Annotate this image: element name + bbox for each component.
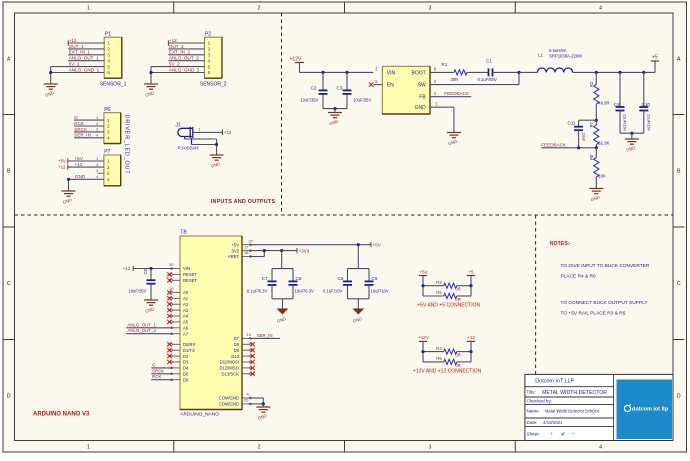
C5/C6 ground <box>348 298 370 300</box>
svg-text:D5: D5 <box>183 372 189 377</box>
svg-text:+5V: +5V <box>58 159 66 164</box>
svg-text:ARDUINO_NANO: ARDUINO_NANO <box>180 412 219 418</box>
ground under C4/C10 <box>625 138 639 140</box>
svg-text:30: 30 <box>169 262 174 267</box>
svg-text:D11/MOSI: D11/MOSI <box>220 360 239 365</box>
svg-text:4: 4 <box>96 175 98 179</box>
svg-text:1: 1 <box>107 118 110 123</box>
svg-text:+12: +12 <box>69 38 77 43</box>
svg-text:+5V: +5V <box>231 242 239 247</box>
svg-text:D6: D6 <box>183 377 189 382</box>
ground under COM/GND <box>256 406 270 408</box>
svg-text:Date:: Date: <box>527 420 538 425</box>
net SER_IN on D7 <box>250 337 281 339</box>
svg-text:C: C <box>677 281 681 287</box>
svg-text:10uF/35V: 10uF/35V <box>128 289 146 294</box>
svg-text:R5: R5 <box>436 290 442 295</box>
capacitor C10 22uF/16V <box>642 71 645 74</box>
svg-text:C4: C4 <box>614 102 620 107</box>
svg-text:0R: 0R <box>455 363 460 368</box>
capacitor C4 22uF/16V <box>618 71 621 74</box>
C4/C10 ground rail <box>620 132 644 134</box>
svg-text:D0/RX: D0/RX <box>183 342 196 347</box>
svg-text:P7: P7 <box>104 149 110 155</box>
svg-text:OUT_1: OUT_1 <box>69 44 84 49</box>
svg-text:4: 4 <box>599 6 602 12</box>
svg-text:3: 3 <box>428 445 431 451</box>
svg-text:0.1uF/50V: 0.1uF/50V <box>478 77 498 82</box>
ground under C9 <box>144 299 158 301</box>
svg-text:G: G <box>74 115 78 120</box>
svg-text:4: 4 <box>208 58 211 63</box>
C7/C8 ground <box>272 298 293 300</box>
section divider dashed vertical (inputs/outputs) <box>281 13 283 215</box>
capacitor C11 DNF <box>579 119 597 121</box>
svg-text:+12: +12 <box>58 165 66 170</box>
capacitor C1 0.1uF/50V <box>467 71 489 73</box>
ground under J1 <box>210 154 224 156</box>
svg-text:D2: D2 <box>183 354 189 359</box>
svg-text:VIN: VIN <box>387 70 396 76</box>
svg-text:RESET: RESET <box>183 278 197 283</box>
svg-text:3: 3 <box>107 130 110 135</box>
svg-text:ANLG_OUT_2: ANLG_OUT_2 <box>127 328 156 333</box>
svg-text:22uF/16V: 22uF/16V <box>623 114 628 132</box>
svg-text:0R: 0R <box>455 353 460 358</box>
svg-text:A: A <box>677 57 681 63</box>
svg-text:METAL WIDTH DETECTOR: METAL WIDTH DETECTOR <box>542 390 607 396</box>
svg-text:C11: C11 <box>568 120 577 125</box>
wire +12V to VIN <box>300 71 374 73</box>
connector P7 <box>104 155 121 186</box>
svg-text:COM/GND: COM/GND <box>219 396 239 401</box>
svg-text:2: 2 <box>107 124 110 129</box>
no-connect X marks <box>167 272 171 276</box>
svg-text:+3V3: +3V3 <box>299 248 310 253</box>
svg-text:FB: FB <box>419 95 426 101</box>
svg-text:G: G <box>152 362 156 367</box>
svg-text:10uF/10V: 10uF/10V <box>371 289 389 294</box>
svg-text:52.3K: 52.3K <box>598 141 609 146</box>
svg-text:P1: P1 <box>105 32 111 38</box>
svg-text:30R: 30R <box>451 77 459 82</box>
capacitor C2 10uF/35V <box>321 71 324 74</box>
svg-text:SENSOR_1: SENSOR_1 <box>100 81 127 87</box>
svg-text:R1: R1 <box>442 62 448 67</box>
svg-text:1: 1 <box>87 445 90 451</box>
svg-text:3: 3 <box>428 6 431 12</box>
svg-text:FEEDBACK: FEEDBACK <box>444 91 470 96</box>
svg-text:C7: C7 <box>262 276 268 281</box>
svg-text:C3: C3 <box>337 85 343 90</box>
svg-text:R6: R6 <box>436 356 442 361</box>
ground under R8 <box>589 188 603 190</box>
capacitor C6 10uF/10V <box>368 269 370 282</box>
svg-text:+12: +12 <box>169 38 177 43</box>
wires <box>422 276 424 297</box>
svg-text:0R: 0R <box>455 297 460 302</box>
resistor R2 49.9R <box>595 71 598 74</box>
svg-text:3: 3 <box>96 128 98 132</box>
svg-text:17: 17 <box>244 244 249 249</box>
svg-text:2: 2 <box>96 163 98 167</box>
svg-text:L1: L1 <box>538 53 544 58</box>
svg-text:ANLG_GND_2: ANLG_GND_2 <box>169 67 200 72</box>
svg-text:1: 1 <box>87 6 90 12</box>
svg-text:ARDUINO NANO V3: ARDUINO NANO V3 <box>33 412 90 418</box>
svg-text:10uF/35V: 10uF/35V <box>300 97 318 102</box>
title block <box>525 374 673 440</box>
svg-text:3V3: 3V3 <box>232 248 240 253</box>
svg-text:P6: P6 <box>104 107 110 113</box>
svg-text:Checked by:: Checked by: <box>527 399 553 404</box>
net SRCK <box>151 373 172 375</box>
wire L1 to +5 output <box>573 71 655 73</box>
svg-text:4: 4 <box>96 134 98 138</box>
svg-text:5V_1: 5V_1 <box>69 62 80 67</box>
svg-text:3: 3 <box>208 53 211 58</box>
svg-text:ANLG_OUT_1: ANLG_OUT_1 <box>127 322 156 327</box>
svg-text:D8: D8 <box>234 342 240 347</box>
svg-text:+5V: +5V <box>373 242 382 247</box>
border zone ticks <box>173 2 175 13</box>
svg-text:AREF: AREF <box>228 254 240 259</box>
svg-text:18: 18 <box>244 250 249 255</box>
svg-text:FEEDBACK: FEEDBACK <box>541 142 567 147</box>
svg-text:2: 2 <box>107 47 110 52</box>
svg-text:10K: 10K <box>598 173 606 178</box>
svg-text:SENSOR_2: SENSOR_2 <box>200 81 227 87</box>
svg-text:1: 1 <box>96 116 98 120</box>
svg-text:A2: A2 <box>183 302 189 307</box>
svg-text:D: D <box>7 394 11 400</box>
resistor R7 52.3K <box>594 125 599 145</box>
svg-text:5: 5 <box>208 64 211 69</box>
FB FEEDBACK net <box>430 96 471 98</box>
svg-text:TO GIVE INPUT TO BUCK CONVERTE: TO GIVE INPUT TO BUCK CONVERTER <box>561 263 650 269</box>
svg-text:5V_2: 5V_2 <box>169 62 180 67</box>
svg-text:C6: C6 <box>372 276 378 281</box>
svg-text:Name: Name <box>527 409 540 414</box>
svg-text:PJ-002AH: PJ-002AH <box>178 146 199 151</box>
svg-text:D9: D9 <box>234 348 240 353</box>
svg-text:EN: EN <box>387 83 394 89</box>
svg-text:P2: P2 <box>205 32 211 38</box>
ground under P2 <box>144 83 158 85</box>
svg-text:EXT_IN_2: EXT_IN_2 <box>169 50 191 55</box>
svg-text:INPUTS AND OUTPUTS: INPUTS AND OUTPUTS <box>211 199 276 205</box>
svg-text:10: 10 <box>247 332 252 337</box>
svg-text:Metal Width Detector.SchDoc: Metal Width Detector.SchDoc <box>545 409 600 414</box>
svg-text:A7: A7 <box>183 331 189 336</box>
svg-text:+12: +12 <box>123 266 131 271</box>
buck regulator U1 <box>382 66 430 114</box>
svg-text:D4: D4 <box>183 366 189 371</box>
svg-text:R3: R3 <box>436 280 442 285</box>
svg-text:D13/SCK: D13/SCK <box>222 372 240 377</box>
svg-text:C: C <box>7 281 11 287</box>
arduino pin stubs <box>173 268 181 270</box>
svg-text:RCK: RCK <box>74 121 85 126</box>
svg-text:D7: D7 <box>234 336 240 341</box>
EN pin no-connect <box>373 84 382 86</box>
connector P1 (SENSOR_1) <box>104 37 122 78</box>
svg-text:A5: A5 <box>183 320 189 325</box>
arduino module TB (ARDUINO_NANO) <box>180 236 242 410</box>
svg-text:+12V: +12V <box>290 57 302 63</box>
svg-text:RESET: RESET <box>183 272 197 277</box>
svg-text:C1: C1 <box>486 58 492 63</box>
svg-text:+5V: +5V <box>75 156 84 161</box>
svg-text:+5V AND +5 CONNECTION: +5V AND +5 CONNECTION <box>417 302 480 308</box>
ground under C2/C3 <box>328 112 342 114</box>
svg-text:2: 2 <box>208 47 211 52</box>
svg-text:D12/MISO: D12/MISO <box>219 366 239 371</box>
svg-text:A: A <box>7 57 11 63</box>
ground under U1 <box>447 132 461 134</box>
svg-text:3: 3 <box>96 169 98 173</box>
svg-text:6: 6 <box>107 70 110 75</box>
svg-text:EXT_IN_1: EXT_IN_1 <box>69 50 91 55</box>
svg-text:D10: D10 <box>231 354 239 359</box>
svg-text:*: * <box>572 431 574 436</box>
svg-text:VIN: VIN <box>183 266 190 271</box>
resistor R4 0R <box>444 349 457 354</box>
svg-text:10uF/35V: 10uF/35V <box>353 97 371 102</box>
net RCK <box>151 379 172 381</box>
svg-text:0.1uF/10V: 0.1uF/10V <box>323 289 343 294</box>
svg-text:SER_IN: SER_IN <box>74 133 91 138</box>
svg-text:+12V: +12V <box>418 335 430 340</box>
svg-text:ANLG_OUT_1: ANLG_OUT_1 <box>69 56 99 61</box>
svg-text:SRCK: SRCK <box>152 368 164 373</box>
dotcom iot llp logo <box>617 380 673 440</box>
svg-text:A4: A4 <box>183 314 189 319</box>
svg-text:1: 1 <box>208 41 211 46</box>
svg-text:R2: R2 <box>589 81 594 87</box>
svg-text:A1: A1 <box>183 296 189 301</box>
svg-text:R4: R4 <box>436 346 442 351</box>
svg-text:+12: +12 <box>75 162 83 167</box>
svg-text:SRP1038A-220M: SRP1038A-220M <box>549 53 582 58</box>
svg-text:OUT_2: OUT_2 <box>169 44 184 49</box>
svg-text:C5: C5 <box>338 276 344 281</box>
svg-text:A6: A6 <box>183 326 189 331</box>
svg-text:4: 4 <box>599 445 602 451</box>
svg-text:+12V AND +12 CONNECTION: +12V AND +12 CONNECTION <box>413 368 482 374</box>
ground under C7/C8 <box>277 309 289 315</box>
net ANLG_OUT_2 <box>126 333 172 335</box>
svg-text:*: * <box>551 431 553 436</box>
svg-text:3: 3 <box>107 53 110 58</box>
svg-text:49.9R: 49.9R <box>598 100 609 105</box>
U1 GND pin to ground <box>430 106 454 108</box>
connector P6 (DRIVER_LED_OUT) <box>104 113 121 144</box>
svg-text:2: 2 <box>258 6 261 12</box>
svg-text:R7: R7 <box>589 121 594 127</box>
ground under C5/C6 <box>352 309 364 315</box>
svg-text:C9: C9 <box>143 268 148 274</box>
svg-text:4: 4 <box>107 136 110 141</box>
ground under P7 <box>62 190 76 192</box>
ground under P1 <box>44 83 58 85</box>
svg-text:1: 1 <box>107 41 110 46</box>
capacitor C9 10uF/35V <box>149 267 152 270</box>
svg-text:J1: J1 <box>175 123 181 129</box>
capacitor C8 10uF/6.3V <box>292 269 294 282</box>
wire C2-C3 ground rail <box>323 108 347 110</box>
svg-text:PLACE R4 & R6: PLACE R4 & R6 <box>561 274 597 280</box>
capacitor C5 0.1uF/10V <box>357 245 359 269</box>
svg-text:29: 29 <box>244 398 249 403</box>
resistor R3 0R <box>444 283 457 288</box>
svg-text:+5: +5 <box>468 269 474 274</box>
inductor L1 5.6uH/9A SRP1038A-220M <box>519 71 537 73</box>
svg-text:D1/TX: D1/TX <box>183 348 195 353</box>
svg-text:+12: +12 <box>467 335 475 340</box>
svg-text:4/19/2021: 4/19/2021 <box>543 420 563 425</box>
svg-text:0.1uF/6.3V: 0.1uF/6.3V <box>247 289 268 294</box>
svg-text:TB: TB <box>180 230 187 236</box>
resistor R1 30R <box>430 71 454 73</box>
svg-text:A0: A0 <box>183 290 189 295</box>
svg-text:+12: +12 <box>224 130 232 135</box>
svg-text:SRCK: SRCK <box>74 127 88 132</box>
FEEDBACK net wire <box>541 147 596 149</box>
svg-text:BOOT: BOOT <box>412 70 426 76</box>
svg-text:Sheet:: Sheet: <box>527 431 540 436</box>
wires <box>422 341 424 362</box>
svg-text:A3: A3 <box>183 308 189 313</box>
net ANLG_OUT_1 <box>126 327 172 329</box>
svg-text:2: 2 <box>107 165 110 170</box>
svg-text:D: D <box>677 394 681 400</box>
svg-text:RCK: RCK <box>152 374 161 379</box>
svg-text:C10: C10 <box>642 102 651 107</box>
svg-text:Dotcom IoT LLP: Dotcom IoT LLP <box>535 379 574 385</box>
svg-text:+5: +5 <box>652 54 658 60</box>
svg-text:2: 2 <box>258 445 261 451</box>
+5V rail from pin 27 <box>250 244 372 246</box>
SW wire riser <box>430 84 519 86</box>
svg-text:DNF: DNF <box>581 133 586 142</box>
svg-text:4: 4 <box>107 177 110 182</box>
svg-text:D3: D3 <box>183 360 189 365</box>
svg-text:4: 4 <box>107 58 110 63</box>
svg-text:ANLG_GND_1: ANLG_GND_1 <box>69 67 100 72</box>
3V3/AREF rail to +3V3 <box>250 250 298 252</box>
svg-text:C2: C2 <box>311 85 317 90</box>
svg-text:dotcom iot llp: dotcom iot llp <box>632 407 669 413</box>
section divider dashed vertical (notes column) <box>535 215 537 374</box>
capacitor C3 10uF/35V <box>345 71 348 74</box>
resistor R5 0R <box>444 293 457 298</box>
svg-text:10uF/6.3V: 10uF/6.3V <box>295 289 315 294</box>
svg-text:GND: GND <box>75 174 86 179</box>
connector P2 (SENSOR_2) <box>204 37 222 78</box>
svg-text:GND: GND <box>415 105 427 111</box>
svg-text:COM/GND: COM/GND <box>219 402 239 407</box>
svg-text:SW: SW <box>418 83 426 89</box>
svg-text:0R: 0R <box>455 287 460 292</box>
svg-text:C8: C8 <box>296 276 302 281</box>
svg-text:5: 5 <box>107 64 110 69</box>
svg-text:22uF/16V: 22uF/16V <box>647 114 652 132</box>
resistor R8 10K <box>595 148 597 158</box>
svg-text:27: 27 <box>249 238 254 243</box>
svg-text:TO +5V RAIL PLACE R3 & R5: TO +5V RAIL PLACE R3 & R5 <box>561 311 626 317</box>
svg-text:3: 3 <box>107 171 110 176</box>
svg-text:NOTES:-: NOTES:- <box>550 241 572 247</box>
svg-text:6: 6 <box>208 70 211 75</box>
svg-text:Title:: Title: <box>527 390 536 395</box>
svg-text:ANLG_OUT_2: ANLG_OUT_2 <box>169 56 199 61</box>
svg-text:1: 1 <box>107 159 110 164</box>
COM/GND pins to ground <box>250 397 264 399</box>
svg-text:1: 1 <box>96 157 98 161</box>
svg-text:+5V: +5V <box>419 269 428 274</box>
section divider dashed horizontal <box>15 214 674 216</box>
net G <box>151 367 172 369</box>
svg-text:B: B <box>677 169 681 175</box>
power port +5 output <box>651 60 659 62</box>
svg-text:DRIVER_LED_OUT: DRIVER_LED_OUT <box>124 115 130 175</box>
svg-text:2: 2 <box>96 122 98 126</box>
svg-text:B: B <box>7 169 11 175</box>
capacitor C7 0.1uF/6.3V <box>281 251 283 269</box>
svg-text:TO CONNECT BUCK OUTPUT SUPPLY: TO CONNECT BUCK OUTPUT SUPPLY <box>561 300 649 306</box>
resistor R6 0R <box>444 359 457 364</box>
svg-text:SER_IN: SER_IN <box>257 333 273 338</box>
svg-text:R8: R8 <box>589 154 594 160</box>
svg-text:5.6uH/9A: 5.6uH/9A <box>549 48 567 53</box>
